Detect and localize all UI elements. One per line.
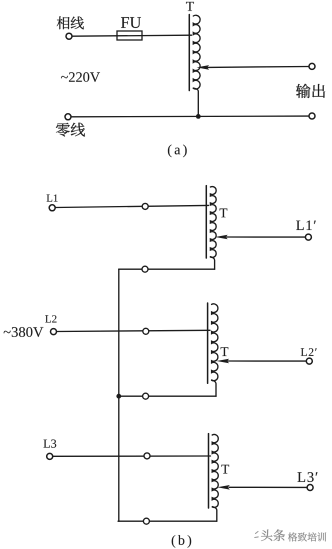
- wiper arrow T1: [215, 235, 228, 240]
- wire L3 to transformer T3: [53, 455, 211, 457]
- label T (transformer a): [186, 2, 194, 11]
- terminal output lower: [309, 113, 315, 119]
- wire L2 to transformer T2: [57, 330, 210, 331]
- label T (T3): [221, 465, 229, 474]
- wire neutral bus (a): [71, 115, 309, 118]
- label L3: [44, 440, 57, 448]
- wire T2 neutral to bus: [119, 395, 216, 397]
- terminal 相线: [66, 33, 72, 39]
- wiper arrow (a): [197, 65, 210, 70]
- connector circle T2 neutral: [143, 393, 149, 399]
- wire wiper T3 to L3': [229, 486, 307, 488]
- label L2': [301, 348, 317, 356]
- terminal L2: [51, 329, 57, 335]
- wiper arrow T2: [217, 359, 230, 364]
- terminal L2': [306, 358, 312, 364]
- transformer T3 core: [208, 434, 210, 508]
- label T (T1): [220, 209, 228, 218]
- wire T2 winding bottom down: [212, 380, 216, 396]
- connector circle L3 wire: [144, 453, 150, 459]
- wire wiper to output upper terminal: [207, 66, 309, 69]
- autotransformer T winding (a): [193, 15, 200, 89]
- terminal L3: [47, 453, 53, 459]
- connector circle T3 neutral: [143, 518, 149, 524]
- transformer T1 winding: [210, 187, 216, 258]
- connector circle L1 wire: [142, 203, 148, 209]
- autotransformer T core (a): [188, 15, 190, 91]
- wiper arrow T3: [217, 485, 230, 490]
- label 零线 (neutral line): [56, 123, 85, 137]
- transformer T3 winding: [212, 435, 218, 508]
- wire L1 to transformer T1: [55, 205, 208, 207]
- transformer T2 winding: [212, 304, 218, 381]
- transformer T1 core: [205, 186, 207, 258]
- label L2: [45, 315, 56, 322]
- fuse FU: [117, 31, 142, 40]
- watermark 头条: [261, 529, 285, 541]
- terminal 零线: [65, 114, 71, 120]
- wire T1 neutral to bus: [119, 268, 215, 270]
- label 输出: [296, 84, 325, 98]
- junction dot bus/T2 neutral: [116, 394, 121, 399]
- caption (a): [168, 145, 187, 158]
- label ~220V: [61, 72, 100, 82]
- wire 相线 to transformer via FU: [72, 35, 191, 36]
- connector circle T1 neutral: [142, 266, 148, 272]
- terminal output upper: [309, 63, 315, 69]
- caption (b): [172, 535, 191, 548]
- label 相线 (phase line): [57, 17, 84, 30]
- watermark speck: [255, 532, 258, 538]
- label L1: [47, 194, 58, 201]
- terminal L1: [49, 205, 55, 211]
- wire winding bottom to neutral (a): [193, 88, 198, 116]
- wire wiper T1 to L1': [226, 236, 305, 238]
- wire T3 winding bottom down: [213, 507, 217, 522]
- wire T1 winding bottom down: [210, 257, 214, 270]
- label L1': [296, 221, 316, 230]
- label L3': [298, 472, 318, 482]
- junction dot (a): [196, 114, 201, 119]
- watermark 格致培训: [288, 532, 326, 541]
- wire T3 neutral to bus: [118, 520, 217, 522]
- terminal L3': [307, 485, 313, 491]
- label FU: [121, 17, 141, 28]
- terminal L1': [305, 234, 311, 240]
- label T (T2): [221, 347, 229, 356]
- label ~380V: [4, 327, 44, 337]
- transformer T2 core: [207, 303, 209, 383]
- connector circle L2 wire: [143, 328, 149, 334]
- wire wiper T2 to L2': [228, 360, 307, 362]
- neutral bus vertical: [118, 269, 120, 521]
